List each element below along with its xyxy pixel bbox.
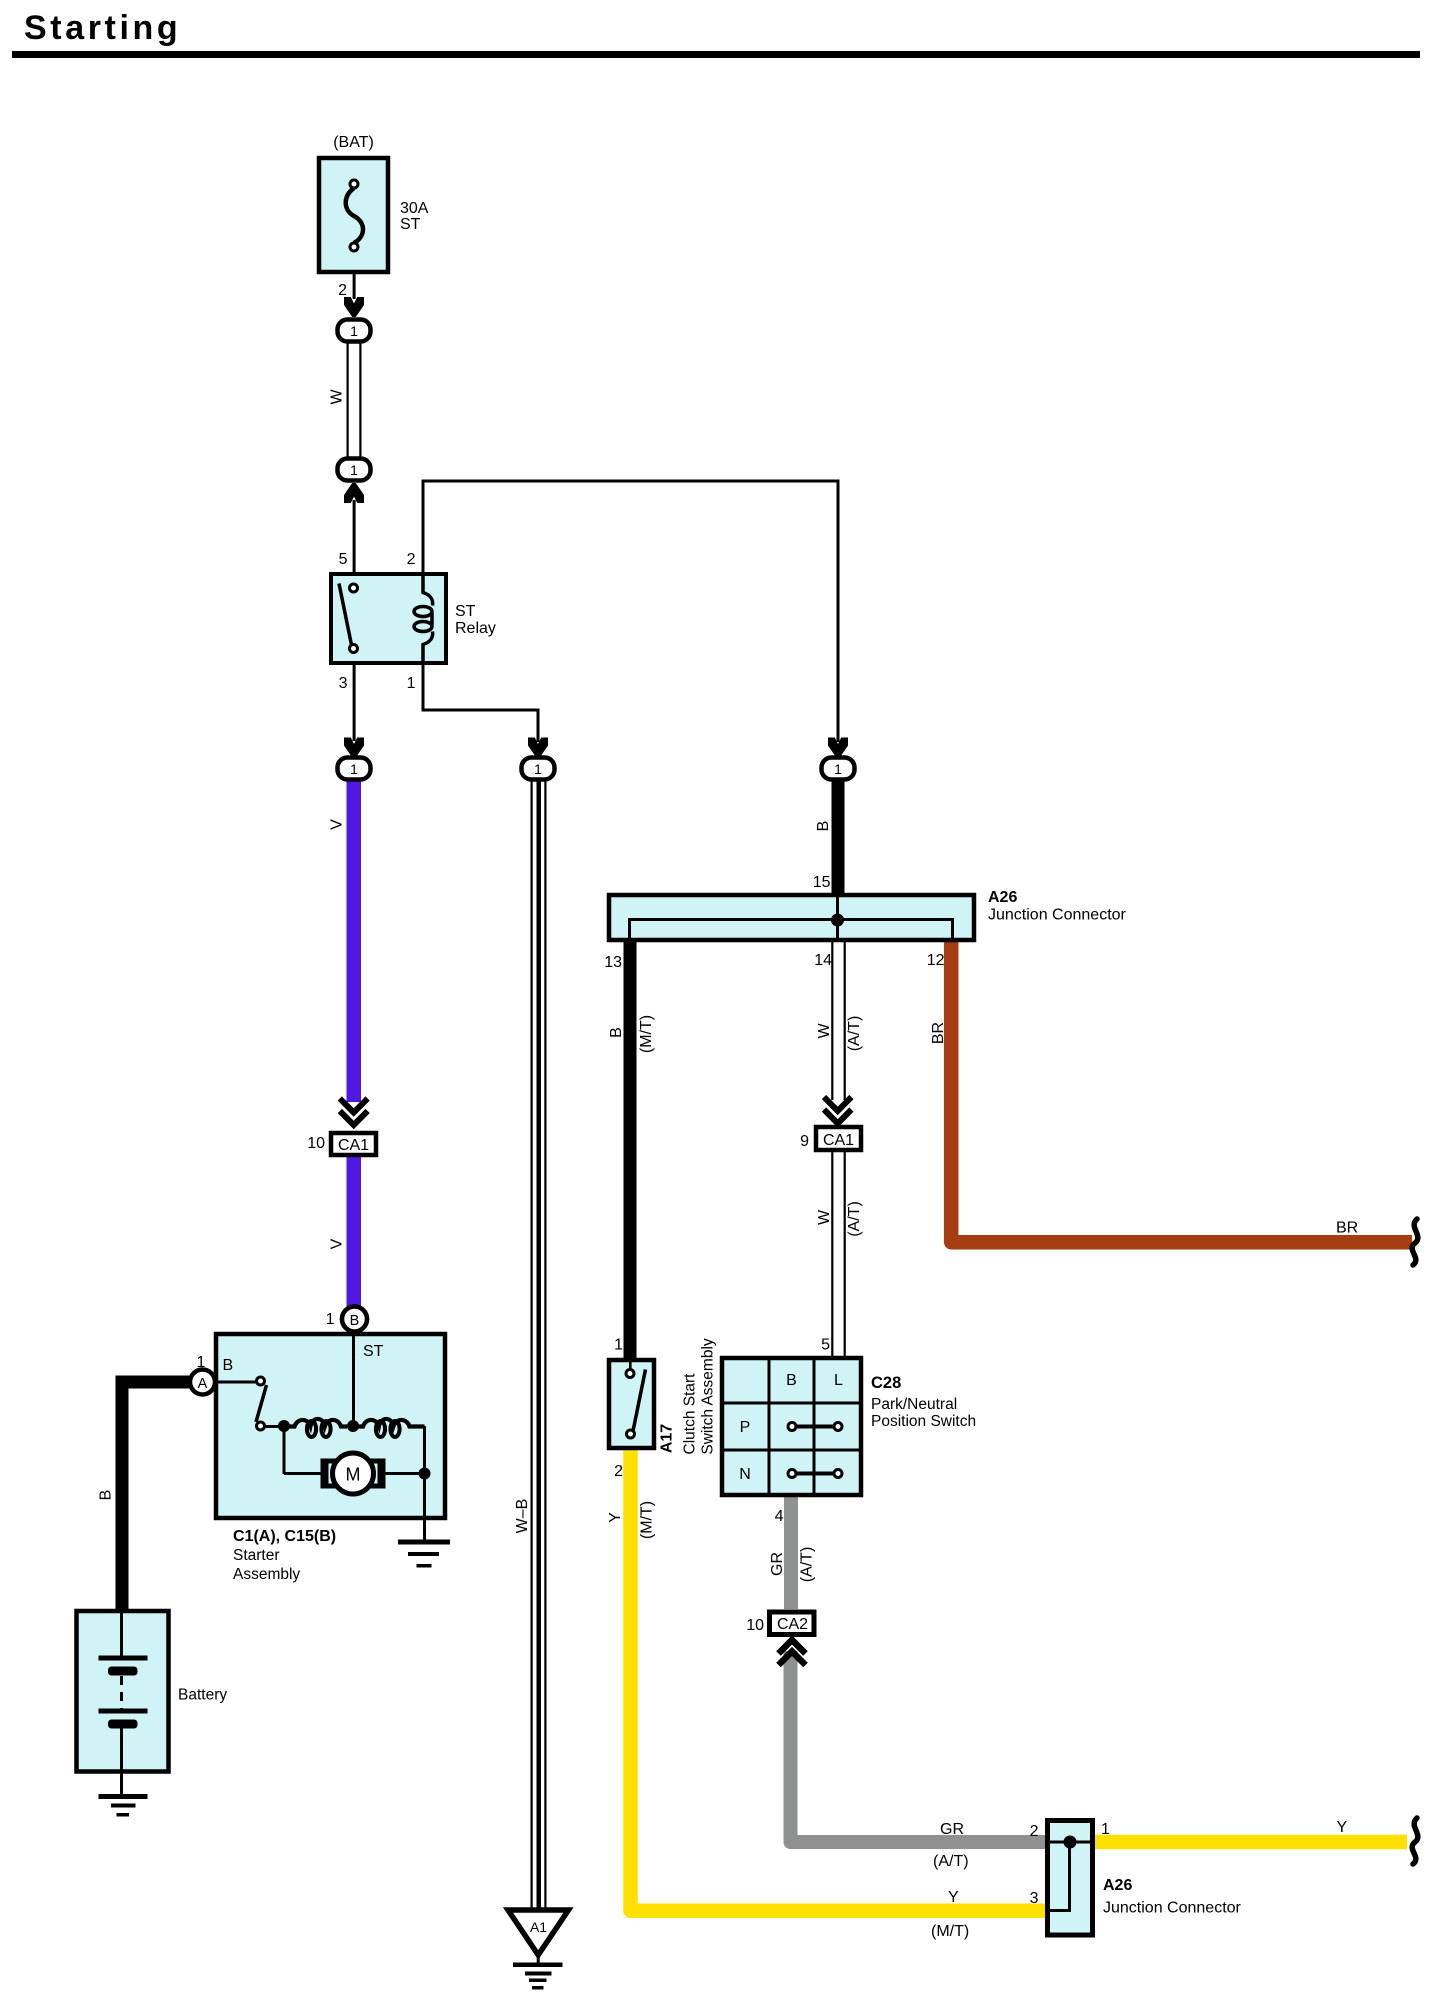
svg-text:15: 15 <box>813 874 831 891</box>
svg-text:ST: ST <box>400 216 421 233</box>
svg-text:CA1: CA1 <box>338 1137 369 1154</box>
svg-text:Junction Connector: Junction Connector <box>1103 1900 1242 1917</box>
svg-text:BR: BR <box>930 1022 947 1044</box>
svg-text:Relay: Relay <box>455 620 496 637</box>
svg-text:N: N <box>739 1466 751 1483</box>
svg-text:(A/T): (A/T) <box>933 1853 969 1870</box>
svg-text:Switch Assembly: Switch Assembly <box>700 1338 717 1455</box>
svg-text:Y: Y <box>1337 1819 1348 1836</box>
svg-text:V: V <box>329 1238 346 1249</box>
svg-text:B: B <box>786 1372 797 1389</box>
svg-text:W: W <box>816 1023 833 1039</box>
svg-text:(A/T): (A/T) <box>846 1201 863 1237</box>
svg-text:C1(A), C15(B): C1(A), C15(B) <box>233 1528 336 1545</box>
svg-text:Assembly: Assembly <box>233 1566 300 1583</box>
svg-text:1: 1 <box>350 323 358 339</box>
svg-text:12: 12 <box>927 952 945 969</box>
svg-text:B: B <box>815 821 832 832</box>
svg-text:1: 1 <box>407 675 416 692</box>
svg-text:A1: A1 <box>530 1919 547 1935</box>
svg-text:(A/T): (A/T) <box>846 1016 863 1052</box>
svg-text:(M/T): (M/T) <box>931 1923 969 1940</box>
svg-text:CA2: CA2 <box>777 1616 808 1633</box>
svg-text:ST: ST <box>455 603 476 620</box>
svg-text:1: 1 <box>534 761 542 777</box>
svg-text:A: A <box>198 1376 208 1392</box>
svg-text:W: W <box>816 1209 833 1225</box>
svg-text:C28: C28 <box>871 1374 901 1392</box>
svg-text:1: 1 <box>350 462 358 478</box>
svg-text:Position Switch: Position Switch <box>871 1413 976 1430</box>
svg-text:1: 1 <box>197 1354 206 1371</box>
svg-text:L: L <box>834 1372 843 1389</box>
svg-text:A26: A26 <box>988 889 1017 906</box>
svg-text:(M/T): (M/T) <box>639 1501 656 1539</box>
svg-text:1: 1 <box>326 1311 335 1328</box>
svg-text:Starter: Starter <box>233 1547 280 1564</box>
svg-text:5: 5 <box>339 551 348 568</box>
svg-text:B: B <box>350 1313 360 1329</box>
svg-text:Y: Y <box>948 1889 959 1906</box>
svg-text:Battery: Battery <box>178 1687 227 1704</box>
svg-text:B: B <box>608 1027 625 1038</box>
svg-text:Park/Neutral: Park/Neutral <box>871 1396 957 1413</box>
svg-text:4: 4 <box>775 1508 784 1525</box>
svg-text:CA1: CA1 <box>823 1132 854 1149</box>
svg-text:Clutch Start: Clutch Start <box>682 1373 699 1455</box>
svg-text:P: P <box>740 1419 751 1436</box>
svg-text:B: B <box>98 1490 115 1501</box>
svg-text:Y: Y <box>607 1512 624 1523</box>
svg-text:V: V <box>329 819 346 830</box>
svg-text:GR: GR <box>940 1821 964 1838</box>
svg-text:W: W <box>329 389 346 405</box>
svg-text:2: 2 <box>1030 1823 1039 1840</box>
svg-text:1: 1 <box>834 761 842 777</box>
svg-text:2: 2 <box>407 551 416 568</box>
svg-text:ST: ST <box>363 1343 384 1360</box>
svg-text:Starting: Starting <box>24 9 181 47</box>
svg-text:14: 14 <box>814 952 832 969</box>
svg-text:(A/T): (A/T) <box>799 1547 816 1583</box>
svg-text:A17: A17 <box>659 1424 676 1453</box>
svg-text:1: 1 <box>1101 1821 1110 1838</box>
svg-text:B: B <box>223 1357 234 1374</box>
svg-text:A26: A26 <box>1103 1877 1132 1894</box>
svg-text:3: 3 <box>339 675 348 692</box>
svg-text:GR: GR <box>769 1552 786 1576</box>
svg-text:(BAT): (BAT) <box>333 134 374 151</box>
svg-text:M: M <box>346 1465 361 1485</box>
svg-text:9: 9 <box>800 1133 809 1150</box>
svg-text:BR: BR <box>1336 1220 1358 1237</box>
svg-text:13: 13 <box>604 954 622 971</box>
svg-text:10: 10 <box>307 1135 325 1152</box>
svg-text:1: 1 <box>350 761 358 777</box>
svg-text:3: 3 <box>1030 1890 1039 1907</box>
svg-text:2: 2 <box>614 1463 623 1480</box>
svg-text:(M/T): (M/T) <box>638 1015 655 1053</box>
svg-text:30A: 30A <box>400 200 429 217</box>
svg-text:W–B: W–B <box>514 1499 531 1534</box>
svg-text:2: 2 <box>338 282 347 299</box>
svg-text:1: 1 <box>614 1337 623 1354</box>
svg-text:Junction Connector: Junction Connector <box>988 907 1127 924</box>
svg-text:10: 10 <box>746 1617 764 1634</box>
svg-text:5: 5 <box>821 1337 830 1354</box>
